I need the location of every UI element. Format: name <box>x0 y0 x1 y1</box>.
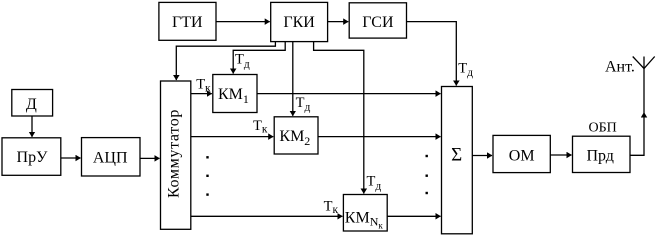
svg-text:Тд: Тд <box>367 174 382 193</box>
wire Prd to antenna <box>630 113 644 156</box>
block Prd (Прд) <box>573 136 631 172</box>
svg-text:Тд: Тд <box>296 95 311 114</box>
wire Commutator to KM2 (Tk) <box>191 136 273 138</box>
block Commutator (Коммутатор) <box>161 81 191 229</box>
svg-text:Коммутатор: Коммутатор <box>166 109 183 198</box>
wire KMNk to Sigma <box>387 215 440 217</box>
wire PrU to ADC <box>61 157 81 159</box>
wire ADC to Commutator <box>140 157 160 159</box>
block OM (ОМ) <box>493 135 550 172</box>
svg-text:АЦП: АЦП <box>93 150 128 167</box>
wire OM to Prd <box>550 154 571 156</box>
svg-text:ОМ: ОМ <box>509 148 535 165</box>
svg-text:Тк: Тк <box>324 198 339 216</box>
svg-text:ГТИ: ГТИ <box>172 14 203 31</box>
antenna mast <box>643 57 645 113</box>
wire GSI to Sigma top (Td) <box>407 22 457 86</box>
block KM1 (КМ1) <box>213 75 257 113</box>
wire Commutator to KM1 (Tk) <box>191 93 212 95</box>
dots left of Sigma <box>426 155 428 194</box>
block PrU (ПрУ) <box>2 138 61 176</box>
wire Sigma to OM <box>472 155 492 157</box>
svg-text:ГСИ: ГСИ <box>362 14 394 31</box>
block Sigma (Σ) <box>442 87 473 234</box>
wire KM2 to Sigma <box>318 136 441 138</box>
svg-text:Тк: Тк <box>196 77 211 95</box>
block ADC (АЦП) <box>82 138 141 176</box>
dots right of Commutator <box>206 156 208 196</box>
svg-text:ОБП: ОБП <box>589 121 617 136</box>
wire GKI to GSI <box>328 21 349 23</box>
svg-text:Тд: Тд <box>458 60 473 79</box>
block KM2 (КМ2) <box>274 117 318 154</box>
block D (Д) <box>12 90 53 117</box>
wire Commutator to KMNk (Tk) <box>191 215 343 217</box>
wire GTI to GKI <box>216 21 270 23</box>
block GSI (ГСИ) <box>349 3 406 38</box>
svg-text:Д: Д <box>26 96 37 113</box>
block GTI (ГТИ) <box>159 2 216 40</box>
svg-text:Тд: Тд <box>235 52 250 71</box>
svg-text:Тк: Тк <box>253 118 268 136</box>
svg-text:ПрУ: ПрУ <box>17 149 49 166</box>
svg-text:Прд: Прд <box>586 148 613 165</box>
svg-text:ГКИ: ГКИ <box>283 14 315 31</box>
svg-text:Σ: Σ <box>451 145 462 166</box>
wire GKI to KM2 (Td) <box>292 42 294 116</box>
svg-text:Ант.: Ант. <box>605 59 635 76</box>
wire KM1 to Sigma <box>257 93 441 95</box>
antenna arms <box>633 57 655 69</box>
block GKI (ГКИ) <box>271 2 328 41</box>
wire D to PrU <box>31 116 33 137</box>
wire GKI to Commutator <box>176 42 275 80</box>
wire GKI to KMNk (Td) <box>314 42 364 194</box>
block KMNk (КМNк) <box>343 195 387 232</box>
wire GKI to KM1 (Td) <box>233 42 285 74</box>
